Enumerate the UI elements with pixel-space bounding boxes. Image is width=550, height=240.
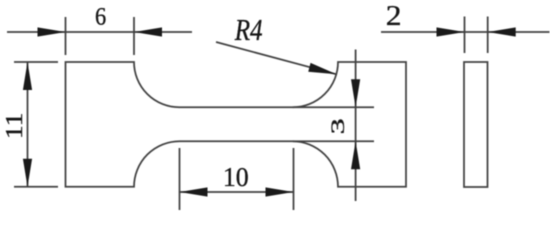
svg-text:2: 2 bbox=[386, 1, 402, 32]
svg-text:3: 3 bbox=[327, 118, 349, 134]
svg-text:11: 11 bbox=[1, 113, 28, 140]
svg-text:10: 10 bbox=[223, 161, 249, 192]
svg-text:R4: R4 bbox=[234, 14, 263, 48]
svg-text:6: 6 bbox=[95, 3, 106, 31]
